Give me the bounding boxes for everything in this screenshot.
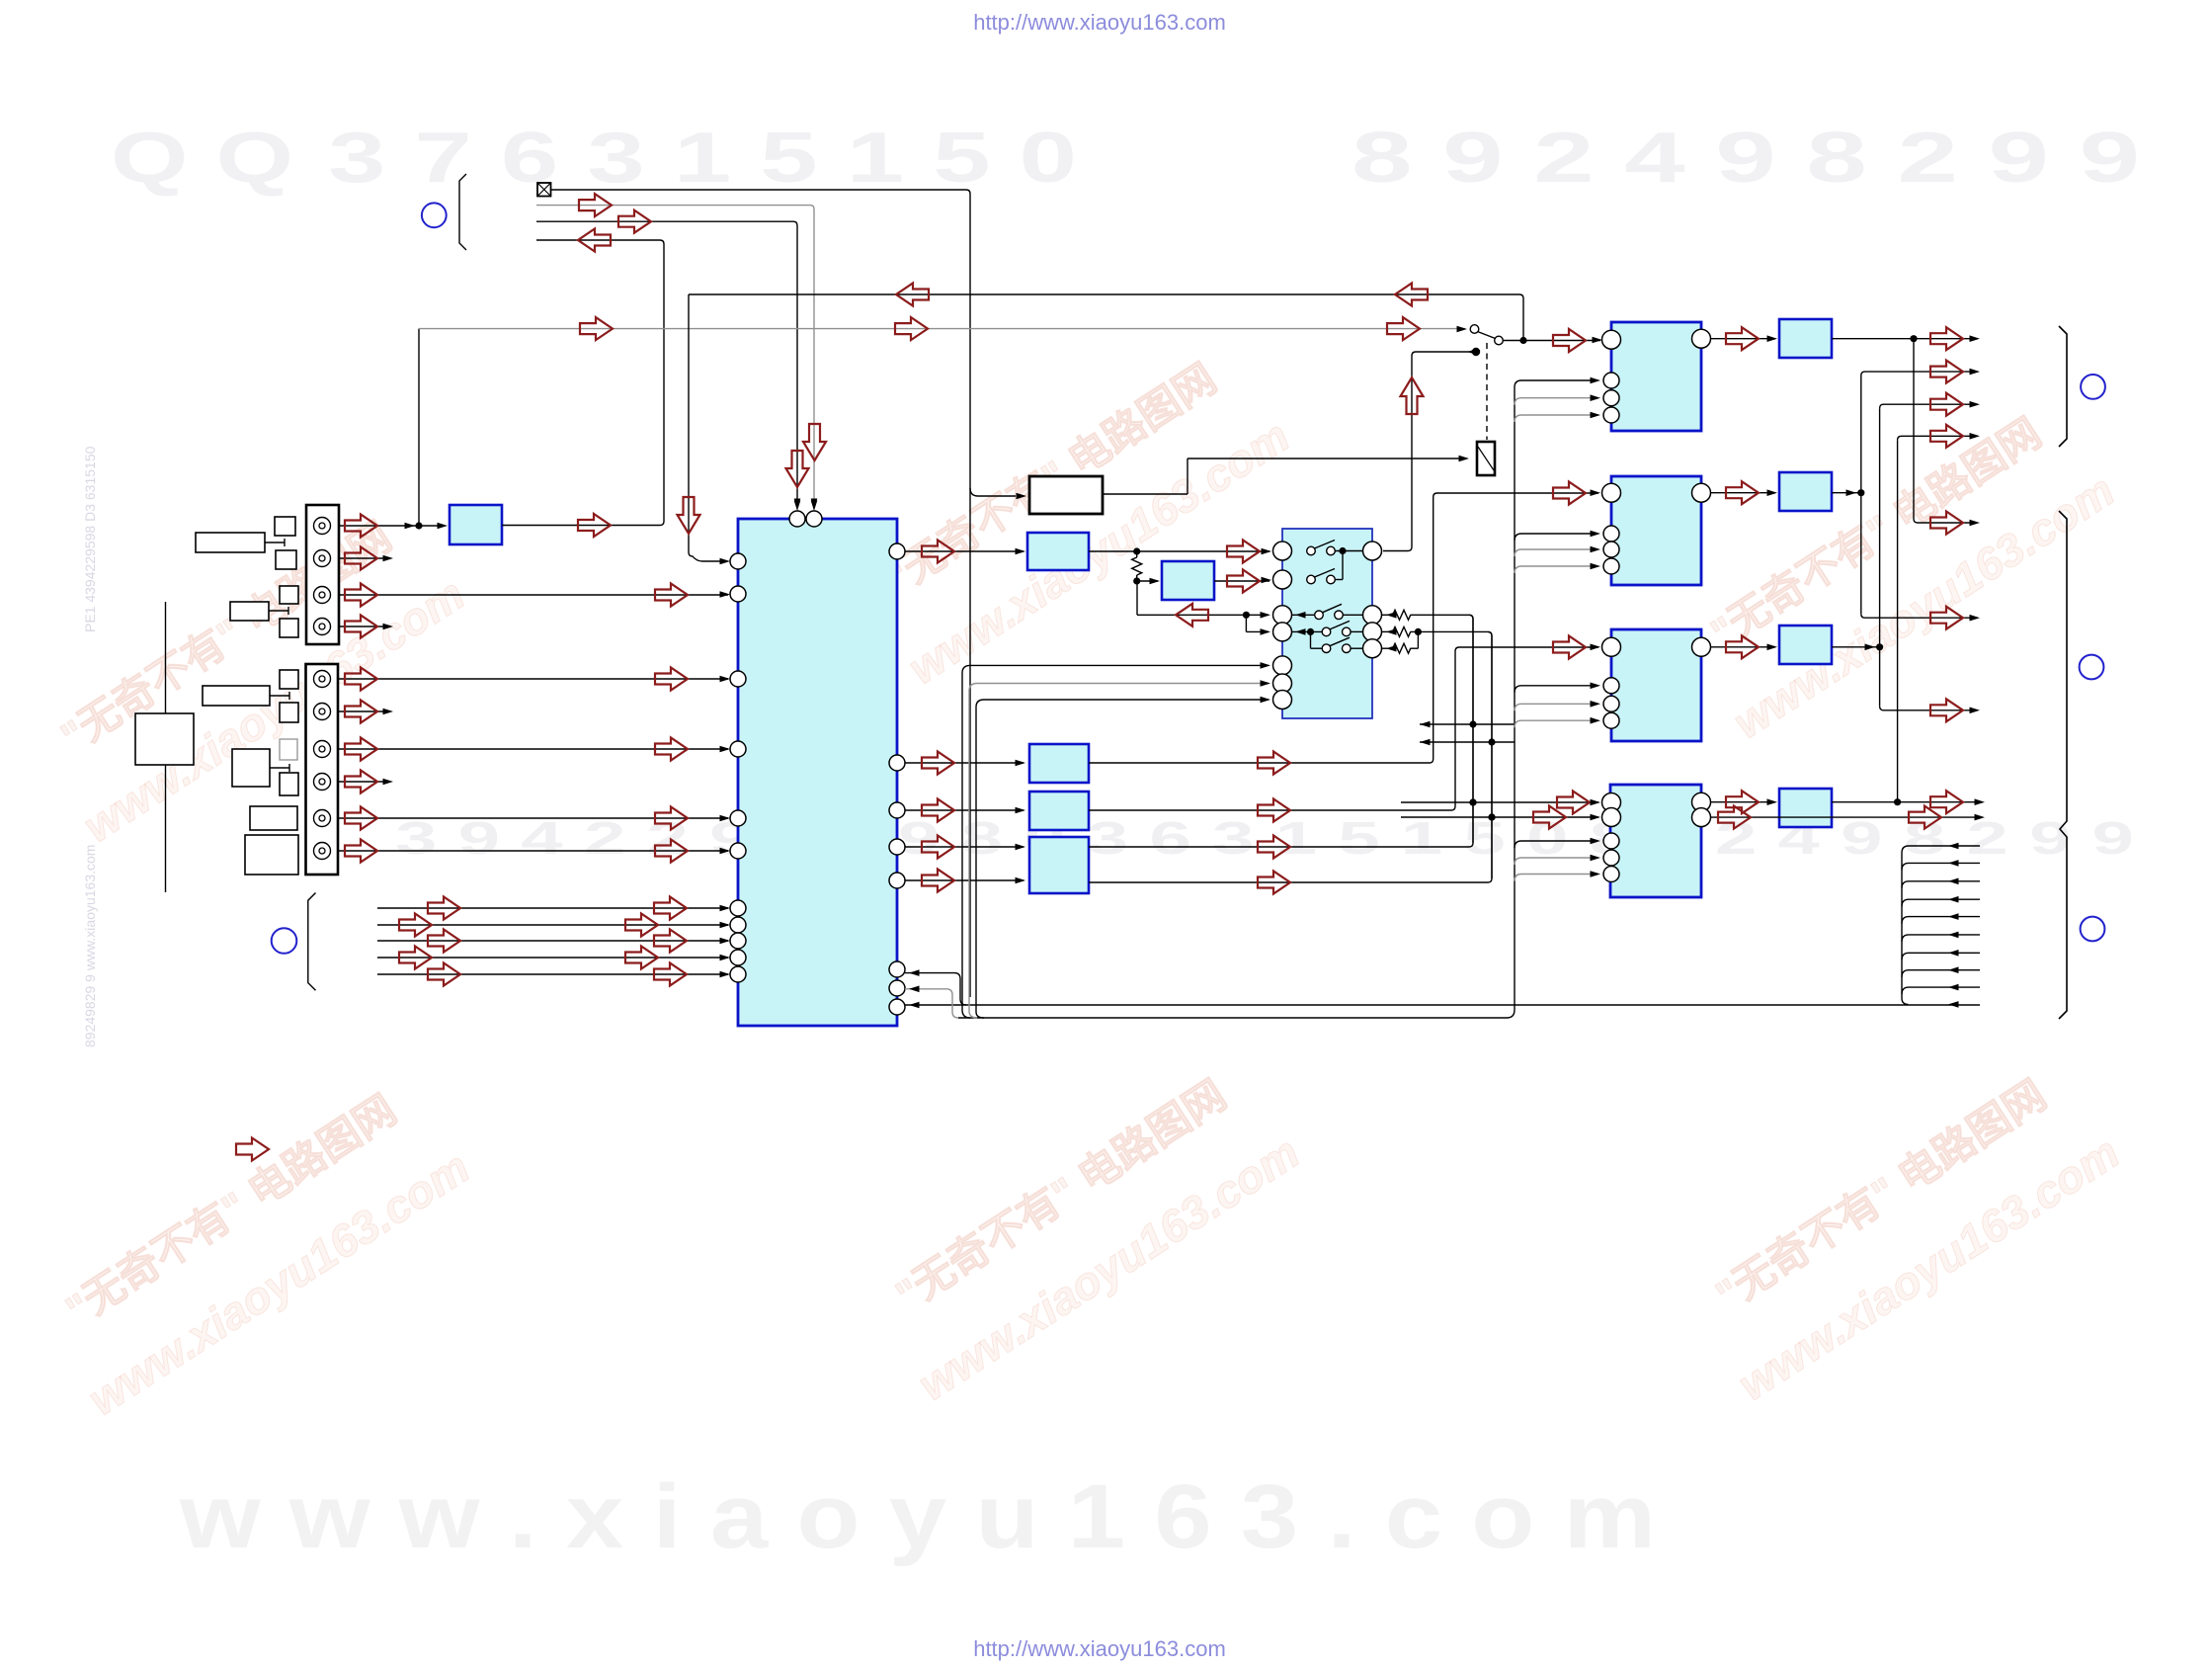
wire rowA4 xyxy=(1898,436,1976,440)
wire line2 gray to top pin xyxy=(536,206,814,507)
amp U4 output pin A xyxy=(1692,793,1711,811)
switch right pin y622.3 xyxy=(1363,606,1382,625)
wire switch feed A xyxy=(962,665,1269,1018)
connector brace A xyxy=(2059,326,2067,447)
wire boxE out1 xyxy=(1089,615,1473,847)
small square g2a-top xyxy=(280,670,298,689)
switch row1 contacts xyxy=(1307,546,1316,555)
power amp block U3 xyxy=(1611,629,1701,741)
switch lower pin y708 xyxy=(1273,691,1292,709)
wire relay coil input xyxy=(1103,459,1465,494)
connector brace B xyxy=(2059,511,2067,1019)
wire out1 row xyxy=(1832,338,1976,340)
pink watermark 2 xyxy=(853,338,1298,694)
switch left pin y622.3 xyxy=(1273,606,1292,625)
wire row2 stub xyxy=(339,557,385,559)
wire rowA2 xyxy=(1861,372,1976,376)
wire amp feed y868 xyxy=(1515,858,1596,865)
RCA jack J1-1 xyxy=(314,518,331,535)
RCA jack J1-3 xyxy=(314,587,331,604)
left pin y601 xyxy=(730,586,746,602)
blue circle ref bottom-left xyxy=(272,928,297,954)
left pin y986 xyxy=(730,966,746,982)
wire H2 to amp feed bundle xyxy=(1507,1010,1515,1018)
wire to box B xyxy=(1137,580,1158,582)
left pin y919 xyxy=(730,900,746,916)
wire bus branch 7 xyxy=(1902,953,1980,960)
amp U3 input pin xyxy=(1602,637,1621,656)
wire amp3 vertical xyxy=(1879,408,1881,707)
label box group2b xyxy=(232,749,270,787)
resistor divider xyxy=(1136,551,1138,557)
wire amp4 outB row xyxy=(1836,816,1981,818)
feedback resistor row639 xyxy=(1382,630,1393,632)
left pin y952 xyxy=(730,933,746,949)
volume slider vertical line xyxy=(165,602,167,892)
wire amp feed y729.2 xyxy=(1515,720,1596,727)
wire amp feed y540 xyxy=(1515,534,1596,541)
svg-text:http://www.xiaoyu163.com: http://www.xiaoyu163.com xyxy=(973,10,1226,35)
wire amp2 vertical xyxy=(1860,376,1862,614)
RCA jack J2-3 xyxy=(314,741,331,758)
wire amp4 input B xyxy=(1401,816,1598,818)
wire X-line to bus xyxy=(551,190,971,997)
switch left pin y557.5 xyxy=(1273,542,1292,560)
wire amp3 out stub xyxy=(1832,646,1880,648)
power amp block U1 xyxy=(1611,322,1701,431)
label box group1a xyxy=(196,533,265,552)
top pin B xyxy=(806,511,822,527)
svg-text:PE1 4394229598 D3 6315150: PE1 4394229598 D3 6315150 xyxy=(82,446,98,632)
tie g2b xyxy=(270,764,289,772)
small square g1b-top xyxy=(280,586,298,604)
IC switch block xyxy=(1282,529,1372,718)
wire monitor to block pin xyxy=(689,294,726,561)
switch left pin y586.5 xyxy=(1273,570,1292,589)
wire monitor line1 xyxy=(1420,723,1515,725)
amp U2 input pin xyxy=(1602,483,1621,502)
switch lower pin y673.4 xyxy=(1273,656,1292,675)
svg-text:Q Q: Q Q xyxy=(111,119,293,198)
pink watermark 3 xyxy=(1678,392,2123,748)
amp U1 input pin xyxy=(1602,330,1621,349)
right pin in y981 xyxy=(889,961,905,977)
wire row9 to block xyxy=(339,817,728,819)
wire bus branch 10 xyxy=(1948,1001,1959,1008)
wire gray selector line xyxy=(419,328,1465,330)
wire monitor return line xyxy=(689,294,1523,340)
wire bus branch 8 xyxy=(1902,970,1980,977)
switch right pin y639.4 xyxy=(1363,623,1382,641)
amp U4 output pin B xyxy=(1692,808,1711,827)
amp U1 ctl pin 3 xyxy=(1603,407,1619,423)
wire amp feed y420 xyxy=(1515,415,1596,422)
wire bus branch 6 xyxy=(1902,935,1980,942)
switch row4 contacts xyxy=(1292,630,1323,632)
right pin in y1019 xyxy=(889,999,905,1015)
svg-text:8 9 2 4 9 8 2 9 9: 8 9 2 4 9 8 2 9 9 xyxy=(1352,119,2140,198)
wire rowA3 xyxy=(1880,404,1976,408)
wire boxE out2 xyxy=(1089,631,1492,882)
power amp block U4 xyxy=(1610,785,1701,897)
wire pin857 to box E xyxy=(905,846,1024,848)
wire amp1 to rowB1 xyxy=(1914,339,1976,523)
wire line3 to top pin xyxy=(536,221,797,507)
output box F2 xyxy=(1779,472,1832,511)
wire row4 stub xyxy=(339,626,385,627)
wire H1 bus xyxy=(905,1004,1980,1006)
wire branch row639 xyxy=(1245,615,1247,631)
feedback resistor row656 xyxy=(1382,647,1393,649)
wire pin820 to box D xyxy=(905,809,1024,811)
wire row2-row1 link xyxy=(1342,551,1344,580)
wire tape line 5 xyxy=(377,973,728,975)
eq box C xyxy=(1029,744,1089,783)
bracket bottom-left xyxy=(308,893,316,991)
dashed relay control line xyxy=(1486,343,1488,440)
right pin y820 xyxy=(889,802,905,818)
amp U4 ctl pin 1 xyxy=(1603,833,1619,849)
pink watermark 6 xyxy=(1682,1054,2128,1410)
pink watermark 4 xyxy=(33,1069,478,1425)
blue circle ref A xyxy=(2081,375,2105,399)
RCA jack J2-6 xyxy=(314,843,331,860)
jack panel 1 xyxy=(306,505,339,644)
IC main selector block xyxy=(738,519,897,1026)
wire row656 to row639 xyxy=(1417,631,1419,648)
wire tape line 2 xyxy=(377,924,728,926)
small square g2b-top gray xyxy=(280,739,297,760)
wire boxA out to switch xyxy=(1089,550,1270,552)
wire boxC to amp2 xyxy=(1089,493,1598,763)
wire row5 to block xyxy=(339,678,728,680)
buffer box B xyxy=(1162,561,1214,600)
wire amp4 input A xyxy=(1401,801,1598,803)
pink watermark 5 xyxy=(862,1054,1308,1410)
buffer box AV1 xyxy=(450,505,502,544)
svg-text:89249829 9 www.xiaoyu163.com: 89249829 9 www.xiaoyu163.com xyxy=(82,845,98,1047)
wire switch feed C xyxy=(976,700,1269,1018)
amp U2 ctl pin 2 xyxy=(1603,542,1619,557)
amp U3 ctl pin 2 xyxy=(1603,696,1619,711)
buffer box A xyxy=(1027,533,1089,570)
wire bus branch 1 xyxy=(1902,846,1980,853)
legend arrow signal path xyxy=(236,1138,269,1161)
wire amp feed y712.3 xyxy=(1515,704,1596,710)
selector lever xyxy=(1478,332,1496,339)
blue circle ref top-left xyxy=(422,203,447,227)
jack panel 2 xyxy=(306,664,339,875)
amp U3 ctl pin 3 xyxy=(1603,712,1619,728)
left pin y687 xyxy=(730,671,746,687)
wire boxB out to switch xyxy=(1214,580,1270,582)
white box relay driver xyxy=(1029,476,1103,514)
amp U2 ctl pin 1 xyxy=(1603,526,1619,542)
label box group1b xyxy=(230,602,269,621)
wire amp feed y693.8 xyxy=(1515,686,1596,693)
svg-text:w w w . x i a o y u 1 6 3 . c: w w w . x i a o y u 1 6 3 . c o m xyxy=(179,1466,1656,1567)
wire bus branch 2 xyxy=(1902,863,1980,870)
wire fb bus x1491 xyxy=(1472,619,1474,843)
amp U3 output pin xyxy=(1692,637,1711,656)
amp U1 ctl pin 1 xyxy=(1603,373,1619,388)
wire bus branch 3 xyxy=(1902,881,1980,888)
eq box D xyxy=(1029,792,1089,830)
wire pin891 to box E xyxy=(905,879,1024,881)
right pin y558 xyxy=(889,543,905,559)
wire bus branch 4 xyxy=(1902,899,1980,906)
wire NC to switchblock xyxy=(1383,352,1471,551)
wire tape line 1 xyxy=(377,907,728,909)
amp U2 output pin xyxy=(1692,483,1711,502)
switch right pin y557.5 xyxy=(1363,542,1382,560)
feedback resistor row622 xyxy=(1382,614,1393,616)
wire switch feed B xyxy=(969,684,1269,1019)
amp U4 ctl pin 3 xyxy=(1603,867,1619,882)
right pin y891 xyxy=(889,873,905,888)
wire amp U3 out xyxy=(1711,646,1776,648)
RCA jack J2-2 xyxy=(314,704,331,720)
wire pin981 merge xyxy=(905,973,966,1005)
wire monitor line2 xyxy=(1420,741,1515,743)
tie g2a xyxy=(270,692,289,700)
bracket top-left xyxy=(459,174,466,250)
right pin y772 xyxy=(889,755,905,771)
wire bus branch 9 xyxy=(1902,987,1980,994)
amp U4 ctl pin 2 xyxy=(1603,850,1619,866)
wire amp feed y402.7 xyxy=(1515,398,1596,405)
svg-text:3 7 6 3 1 5 1 5 0: 3 7 6 3 1 5 1 5 0 xyxy=(328,119,1077,198)
top pin A xyxy=(789,511,805,527)
wire H2 bus xyxy=(958,1017,1507,1019)
wire pin1000 merge gray xyxy=(905,989,958,1018)
switch row3 contacts xyxy=(1292,614,1315,616)
amp U4 input pin B xyxy=(1602,808,1621,827)
wire amp feed y556 xyxy=(1515,549,1596,556)
wire rowB2 xyxy=(1861,614,1976,618)
switch right pin y656.2 xyxy=(1363,639,1382,658)
wire out bus vertical xyxy=(1901,853,1903,998)
wire monitor row622 left xyxy=(1136,581,1138,615)
label box group2c xyxy=(250,806,297,830)
wire row3 to block xyxy=(339,594,728,596)
relay K1 xyxy=(1477,442,1495,475)
selector output wire to amp1 xyxy=(1504,340,1601,342)
small square g1b-bot xyxy=(280,619,298,637)
wire amp feed y573 xyxy=(1515,566,1596,573)
wire amp feed bundle vertical xyxy=(1514,387,1516,1010)
RCA jack J1-4 xyxy=(314,619,331,635)
wire pin772 to box C xyxy=(905,762,1024,764)
wire row6 stub xyxy=(339,710,385,712)
amp U3 ctl pin 1 xyxy=(1603,678,1619,694)
wire arc to white box xyxy=(970,488,1016,496)
RCA jack J2-1 xyxy=(314,671,331,688)
left pin y758 xyxy=(730,741,746,757)
wire amp feed y884.5 xyxy=(1515,875,1596,881)
wire row8 stub xyxy=(339,781,385,783)
switch row5 contacts xyxy=(1311,647,1323,649)
wire fb bus x1510 xyxy=(1491,635,1493,878)
pink watermark 1 xyxy=(28,496,473,852)
amp U2 ctl pin 3 xyxy=(1603,558,1619,574)
selector switch common contact xyxy=(1470,325,1479,334)
RCA jack J1-2 xyxy=(314,550,331,567)
right pin in y1000 xyxy=(889,980,905,996)
wire row4-row5 link xyxy=(1310,631,1312,648)
amp U1 ctl pin 2 xyxy=(1603,390,1619,406)
wire amp U2 out xyxy=(1711,492,1776,494)
selector NC contact dot xyxy=(1472,348,1480,356)
wire pin558 to buffer A xyxy=(905,550,1024,552)
selector moving contact xyxy=(1495,336,1504,345)
wire tape line 4 xyxy=(377,957,728,959)
blue circle ref B xyxy=(2080,655,2104,680)
small square g2a-bot xyxy=(280,703,298,722)
right pin y857 xyxy=(889,839,905,855)
power amp block U2 xyxy=(1611,476,1701,585)
left pin y861 xyxy=(730,843,746,859)
wire jack row1 to buffer xyxy=(339,525,444,527)
label box group2d xyxy=(245,835,298,875)
wire row10 to block xyxy=(339,850,728,852)
output box F3 xyxy=(1779,626,1832,664)
amp U4 input pin A xyxy=(1602,793,1621,812)
left pin y568 xyxy=(730,553,746,569)
wire bus branch 5 xyxy=(1902,917,1980,924)
switch left pin y639.4 xyxy=(1273,623,1292,641)
wire amp4 outA row xyxy=(1832,801,1981,803)
wire amp feed y851 xyxy=(1515,841,1596,848)
output box F1 xyxy=(1779,319,1832,358)
amp U1 output pin xyxy=(1692,329,1711,348)
label box group2a xyxy=(203,686,270,706)
wire row7 to block xyxy=(339,748,728,750)
wire rowB3 xyxy=(1880,707,1976,710)
wire amp feed y385 xyxy=(1515,380,1596,387)
RCA jack J2-5 xyxy=(314,810,331,827)
wire boxD to amp3 xyxy=(1089,647,1598,810)
wire amp U4 out B xyxy=(1711,816,1837,818)
wire line4 rec out xyxy=(502,240,664,526)
blue circle ref C xyxy=(2081,917,2105,942)
left pin y828 xyxy=(730,810,746,826)
switch lower pin y691.5 xyxy=(1273,674,1292,693)
left pin y969 xyxy=(730,950,746,965)
output box F4 xyxy=(1779,789,1832,827)
wire amp U1 out xyxy=(1711,338,1776,340)
tie g1a xyxy=(265,539,285,546)
RCA jack J2-4 xyxy=(314,774,331,791)
small square g2b-bot xyxy=(280,773,298,795)
left pin y936 xyxy=(730,917,746,933)
wire vertical from row1 dot to gray bus xyxy=(418,329,420,526)
tie g1b xyxy=(269,607,288,615)
wire amp4 vertical xyxy=(1897,440,1899,801)
small square g1a-bot xyxy=(276,550,296,569)
eq box E xyxy=(1029,837,1089,893)
svg-text:http://www.xiaoyu163.com: http://www.xiaoyu163.com xyxy=(973,1636,1226,1661)
wire amp U4 out xyxy=(1711,801,1776,803)
wire amp2 out stub xyxy=(1832,492,1861,494)
wire tape line 3 xyxy=(377,940,728,942)
volume slider box xyxy=(135,713,194,765)
small square g1a-top xyxy=(275,517,295,536)
switch row2 contacts xyxy=(1307,575,1316,584)
terminal box X xyxy=(537,183,551,197)
